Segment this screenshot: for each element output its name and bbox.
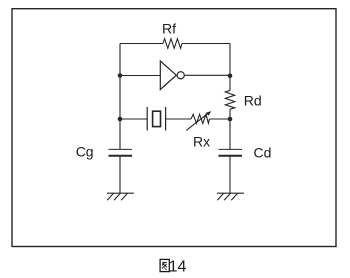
- caption 图 glyph: [160, 259, 169, 271]
- svg-text:14: 14: [169, 258, 187, 275]
- Rx wiper arrow: [186, 113, 208, 130]
- resistor Rd: [225, 90, 234, 109]
- wire top-right vertical (node OUT side upper): [229, 44, 231, 91]
- crystal X1 body: [153, 111, 161, 126]
- wire Cd to ground: [229, 157, 231, 194]
- node Rx right junction: [228, 117, 233, 122]
- resistor Rx (variable): [191, 114, 210, 123]
- ground (Cd): [217, 193, 244, 200]
- wire top left segment: [120, 43, 163, 45]
- svg-text:Cg: Cg: [76, 144, 94, 160]
- wire inverter input: [120, 75, 160, 77]
- op-amp U1 inverter triangle: [160, 61, 176, 90]
- svg-text:Cd: Cd: [254, 145, 272, 161]
- capacitor Cg top plate: [109, 148, 133, 150]
- border frame: [12, 9, 336, 247]
- wire crystal to Rx: [166, 118, 191, 120]
- svg-text:Rf: Rf: [162, 21, 176, 37]
- capacitor Cg bottom plate: [109, 155, 133, 157]
- ground (Cg): [107, 193, 134, 200]
- crystal X1 right plate: [165, 107, 167, 131]
- capacitor Cd top plate: [219, 148, 243, 150]
- crystal X1 left plate: [146, 107, 148, 131]
- node inverter output junction: [228, 74, 233, 79]
- node inverter input junction: [118, 73, 123, 78]
- wire right vertical lower: [229, 109, 231, 149]
- wire Cg to ground: [119, 157, 121, 194]
- wire top-left vertical (node IN side): [119, 44, 121, 150]
- capacitor Cd bottom plate: [219, 155, 243, 157]
- svg-text:Rd: Rd: [244, 93, 262, 109]
- inverter bubble: [177, 72, 184, 79]
- wire inverter output: [184, 74, 230, 76]
- node crystal branch left junction: [118, 117, 123, 122]
- wire crystal branch left: [120, 118, 147, 120]
- wire top right segment: [182, 43, 230, 45]
- svg-text:Rx: Rx: [193, 133, 210, 149]
- wire Rx to right rail: [210, 118, 231, 120]
- resistor Rf: [163, 39, 182, 49]
